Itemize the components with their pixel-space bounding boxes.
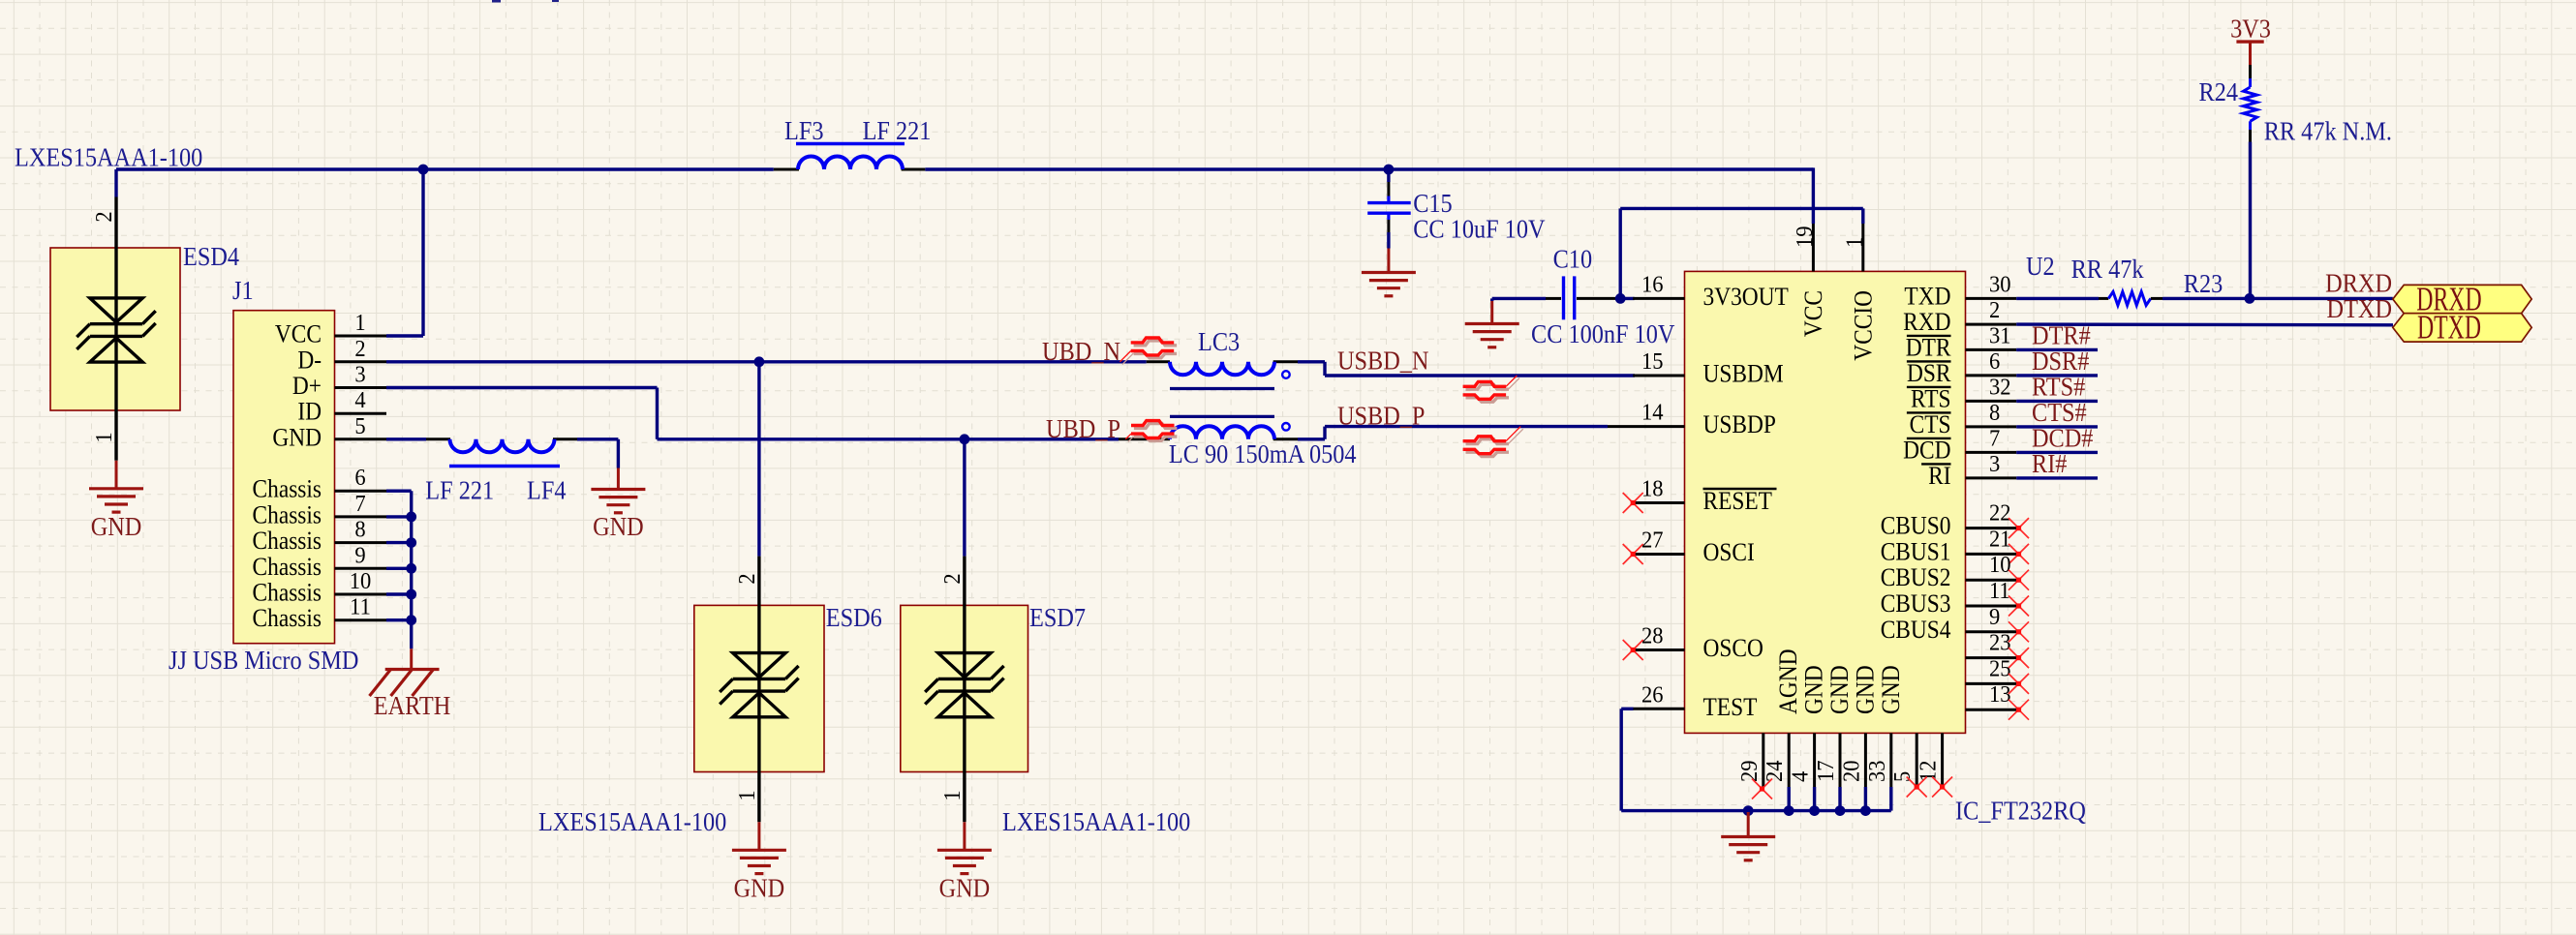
svg-text:20: 20 — [1839, 760, 1865, 782]
svg-text:LXES15AAA1-100: LXES15AAA1-100 — [1002, 807, 1190, 836]
svg-text:EARTH: EARTH — [374, 691, 450, 720]
svg-text:9: 9 — [354, 542, 365, 568]
svg-text:16: 16 — [1641, 272, 1664, 298]
svg-text:VCCIO: VCCIO — [1850, 290, 1877, 361]
svg-text:11: 11 — [1989, 578, 2010, 604]
svg-text:24: 24 — [1762, 760, 1788, 782]
svg-text:1: 1 — [354, 310, 365, 336]
svg-text:RXD: RXD — [1903, 309, 1950, 336]
svg-text:LC 90 150mA 0504: LC 90 150mA 0504 — [1169, 439, 1357, 468]
svg-text:2: 2 — [354, 336, 365, 362]
svg-text:TXD: TXD — [1904, 283, 1950, 310]
svg-text:7: 7 — [354, 491, 365, 517]
svg-text:Chassis: Chassis — [253, 476, 322, 503]
svg-text:DTXD: DTXD — [2417, 311, 2481, 347]
svg-text:D+: D+ — [292, 373, 322, 400]
svg-text:RR 47k N.M.: RR 47k N.M. — [2264, 117, 2392, 146]
svg-text:DTR: DTR — [1906, 334, 1951, 361]
svg-text:J1: J1 — [232, 276, 254, 305]
svg-text:RI#: RI# — [2032, 449, 2068, 478]
svg-text:VCC: VCC — [275, 320, 322, 347]
svg-text:OSCO: OSCO — [1703, 635, 1763, 662]
svg-text:LXES15AAA1-100: LXES15AAA1-100 — [15, 142, 202, 171]
svg-text:LF4: LF4 — [527, 475, 567, 504]
svg-text:CBUS3: CBUS3 — [1881, 590, 1951, 618]
svg-text:4: 4 — [1788, 771, 1814, 782]
svg-text:27: 27 — [1641, 528, 1664, 554]
svg-text:DCD: DCD — [1903, 437, 1950, 464]
svg-text:UBD_N: UBD_N — [1042, 337, 1120, 366]
svg-text:19: 19 — [1792, 226, 1818, 248]
svg-text:U2: U2 — [2026, 252, 2055, 281]
svg-text:GND: GND — [1801, 665, 1828, 714]
svg-text:GND: GND — [91, 512, 142, 541]
svg-text:Chassis: Chassis — [253, 554, 322, 581]
svg-text:USBD_N: USBD_N — [1337, 346, 1428, 375]
svg-text:GND: GND — [1878, 665, 1905, 714]
svg-text:RESET: RESET — [1703, 488, 1772, 515]
svg-text:JJ USB Micro SMD: JJ USB Micro SMD — [169, 646, 358, 675]
svg-text:GND: GND — [939, 873, 991, 902]
svg-text:14: 14 — [1641, 400, 1664, 426]
svg-text:10: 10 — [1989, 552, 2011, 578]
svg-text:22: 22 — [1989, 500, 2011, 527]
svg-text:IC_FT232RQ: IC_FT232RQ — [1955, 796, 2086, 825]
svg-text:2: 2 — [1989, 297, 2000, 323]
svg-text:2: 2 — [939, 573, 966, 584]
svg-text:DSR: DSR — [1907, 360, 1951, 387]
svg-text:18: 18 — [1641, 476, 1664, 502]
svg-text:RTS: RTS — [1911, 385, 1950, 412]
svg-text:33: 33 — [1864, 760, 1890, 782]
svg-text:3V3: 3V3 — [2230, 14, 2271, 43]
svg-text:R23: R23 — [2184, 269, 2223, 298]
svg-text:GND: GND — [272, 424, 322, 451]
svg-text:CTS: CTS — [1910, 411, 1951, 438]
svg-text:VCC: VCC — [1800, 290, 1827, 337]
svg-text:23: 23 — [1989, 630, 2011, 656]
svg-text:RI: RI — [1928, 463, 1950, 490]
svg-text:9: 9 — [1989, 604, 2000, 630]
svg-text:4: 4 — [354, 387, 365, 413]
svg-text:Chassis: Chassis — [253, 528, 322, 555]
svg-text:ESD4: ESD4 — [183, 242, 239, 271]
svg-text:ESD7: ESD7 — [1029, 603, 1086, 632]
svg-text:6: 6 — [354, 465, 365, 491]
svg-text:D-: D- — [297, 347, 322, 374]
svg-text:12: 12 — [1916, 760, 1942, 782]
svg-text:Chassis: Chassis — [253, 501, 322, 528]
svg-text:3: 3 — [1989, 451, 2000, 477]
svg-text:LF3: LF3 — [784, 116, 823, 145]
svg-text:21: 21 — [1989, 527, 2011, 553]
svg-text:30: 30 — [1989, 272, 2011, 298]
svg-text:CBUS0: CBUS0 — [1881, 513, 1951, 540]
svg-text:LF 221: LF 221 — [863, 116, 932, 145]
svg-text:1: 1 — [939, 790, 966, 800]
svg-text:29: 29 — [1736, 760, 1763, 782]
svg-text:C10: C10 — [1553, 244, 1592, 273]
svg-text:GND: GND — [734, 873, 785, 902]
svg-text:CBUS1: CBUS1 — [1881, 538, 1951, 565]
svg-text:17: 17 — [1813, 760, 1839, 782]
svg-text:32: 32 — [1989, 375, 2011, 401]
svg-text:1: 1 — [91, 432, 117, 442]
svg-text:LF 221: LF 221 — [425, 475, 494, 504]
svg-text:LC3: LC3 — [1198, 327, 1240, 356]
svg-text:15: 15 — [1641, 348, 1664, 375]
svg-text:2: 2 — [734, 573, 760, 584]
svg-text:CC 10uF 10V: CC 10uF 10V — [1413, 214, 1546, 243]
svg-text:UBD_P: UBD_P — [1046, 414, 1120, 443]
svg-text:25: 25 — [1989, 656, 2011, 682]
svg-text:13: 13 — [1989, 681, 2011, 708]
svg-text:3V3OUT: 3V3OUT — [1703, 284, 1789, 311]
svg-text:10: 10 — [350, 568, 372, 594]
svg-text:AGND: AGND — [1775, 648, 1802, 714]
svg-text:OSCI: OSCI — [1703, 539, 1755, 566]
svg-text:Chassis: Chassis — [253, 579, 322, 606]
svg-text:5: 5 — [1889, 771, 1916, 782]
svg-text:CBUS4: CBUS4 — [1881, 617, 1951, 644]
svg-text:TEST: TEST — [1703, 694, 1758, 721]
svg-text:6: 6 — [1989, 348, 2000, 375]
svg-text:ID: ID — [297, 399, 322, 426]
svg-text:26: 26 — [1641, 681, 1664, 708]
svg-text:RR 47k: RR 47k — [2071, 255, 2144, 284]
svg-text:31: 31 — [1989, 323, 2011, 349]
svg-text:1: 1 — [734, 790, 760, 800]
svg-text:USBDM: USBDM — [1703, 360, 1784, 387]
svg-text:USBDP: USBDP — [1703, 411, 1776, 438]
svg-text:CBUS2: CBUS2 — [1881, 564, 1951, 591]
svg-text:3: 3 — [354, 362, 365, 388]
svg-text:1: 1 — [1842, 237, 1868, 248]
svg-text:28: 28 — [1641, 623, 1664, 649]
svg-text:DTXD: DTXD — [2327, 294, 2392, 323]
svg-text:11: 11 — [350, 594, 371, 620]
svg-text:GND: GND — [593, 512, 644, 541]
svg-text:GND: GND — [1852, 665, 1879, 714]
svg-text:8: 8 — [1989, 400, 2000, 426]
svg-text:GND: GND — [1826, 665, 1854, 714]
svg-text:Chassis: Chassis — [253, 605, 322, 632]
svg-text:2: 2 — [91, 211, 117, 222]
svg-text:5: 5 — [354, 413, 365, 439]
svg-text:8: 8 — [354, 517, 365, 543]
svg-text:7: 7 — [1989, 426, 2000, 452]
svg-text:R24: R24 — [2199, 77, 2239, 106]
svg-text:ESD6: ESD6 — [826, 603, 882, 632]
svg-text:LXES15AAA1-100: LXES15AAA1-100 — [538, 807, 726, 836]
svg-text:CC 100nF 10V: CC 100nF 10V — [1531, 319, 1675, 348]
svg-text:USBD_P: USBD_P — [1337, 401, 1425, 430]
